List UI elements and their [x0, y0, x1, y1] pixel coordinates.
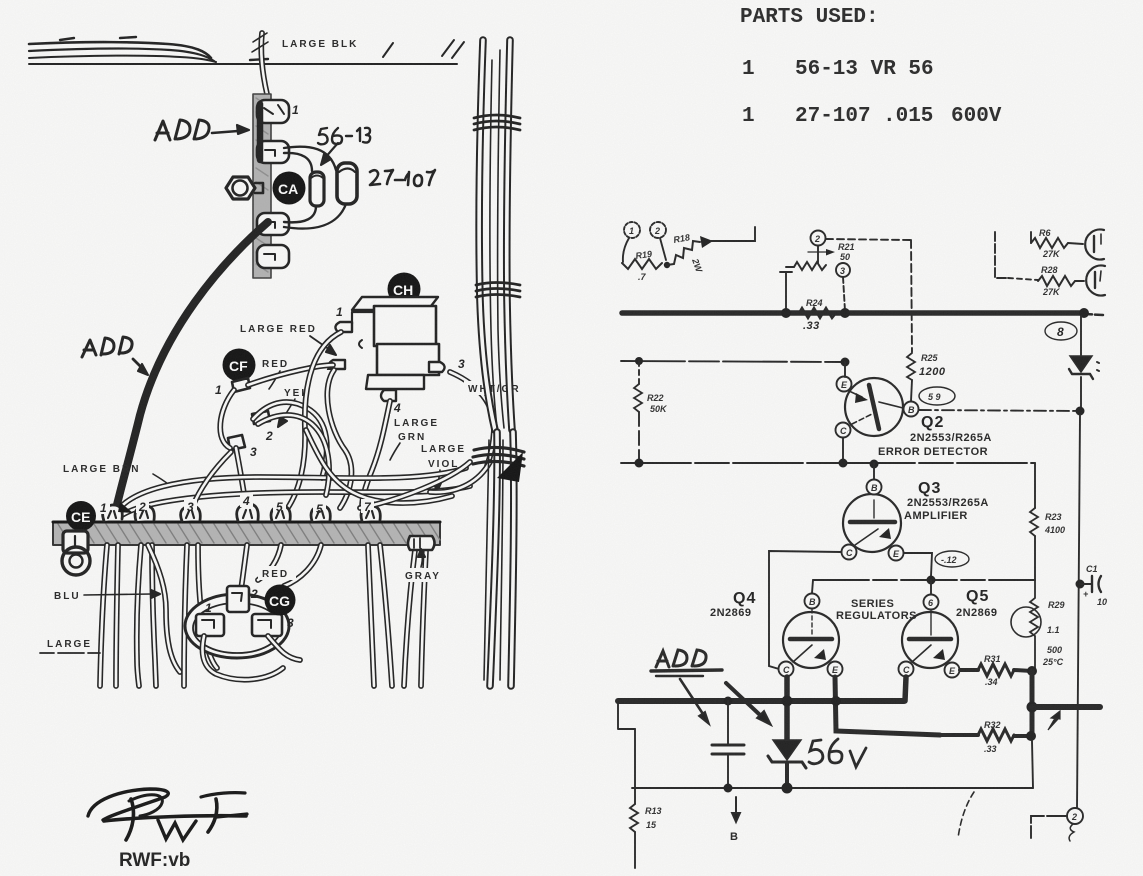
wires below strip t1 [100, 545, 107, 686]
label RED (socket) [258, 566, 296, 580]
pointer LARGE RED [310, 336, 336, 355]
VR tube 56-13 body [310, 172, 324, 206]
wire midfield crossing [306, 430, 452, 503]
hand arrow at bus [1048, 711, 1060, 730]
lug 1 on strip [257, 100, 299, 123]
main thick bus left (B-) [618, 698, 904, 704]
thermistor R29 [1011, 580, 1065, 668]
bus dash tail [1084, 314, 1103, 315]
lug 2 on strip [257, 141, 289, 163]
oval node -.12 [935, 551, 969, 567]
badge CA [273, 172, 306, 205]
capacitor C1 [1080, 564, 1107, 607]
signature W [158, 820, 196, 840]
wire R18 to corner stub [711, 227, 755, 241]
black arrow at terminal 1 [118, 502, 133, 513]
pin E of Q3 [889, 546, 904, 561]
pin B of Q2 [904, 402, 919, 417]
resistor R28 27K [1038, 265, 1084, 297]
added black jumper on strip [257, 104, 264, 160]
node terminal 2 (top left) [650, 222, 666, 238]
strip terminal 6 [311, 506, 330, 521]
relay terminal 3 [429, 357, 465, 372]
label WHT/GR [464, 381, 532, 395]
tick on top wire [252, 33, 268, 52]
pointer RED [269, 371, 280, 389]
wires large viol merging [360, 462, 470, 508]
socket CG outer shell [185, 594, 289, 658]
socket wires out [203, 636, 284, 680]
relay terminal 1 [335, 305, 352, 332]
junction E row right [841, 358, 850, 367]
strip terminal numbers [97, 493, 374, 516]
hand arrow ADD to wire [133, 359, 148, 375]
red wire t4 to socket [241, 545, 247, 590]
label LARGE VIOL [417, 441, 479, 470]
resistor R26 27K [1031, 228, 1083, 259]
junction bus capacitor [724, 697, 733, 706]
wire relay t2 down loop [327, 370, 351, 508]
terminal strip TB-B (horizontal) [53, 522, 440, 545]
lug prong marks [108, 510, 374, 518]
dashed hand mark bottom [958, 792, 974, 838]
zener diode CR (right) [1069, 356, 1099, 379]
thick wire right column down [1030, 671, 1035, 737]
node oval 8 [1045, 322, 1077, 340]
signature F stem [208, 799, 217, 832]
strip terminal 3 [181, 506, 201, 521]
second long wire across [122, 486, 470, 515]
resistor R18 [667, 232, 705, 275]
mounting bolt below CE [62, 531, 90, 575]
wire mid dash row [813, 579, 1035, 581]
relay terminal 2 [326, 359, 345, 373]
junction E row left [635, 357, 643, 365]
signature F top bar [201, 793, 245, 797]
pin E of Q4 [828, 662, 843, 677]
wire Q3 emitter to junction [904, 553, 932, 576]
gray wires below clamp [404, 550, 415, 686]
pin E of Q2 [837, 377, 852, 392]
wire viol into bundle [430, 462, 490, 492]
junction bottom capacitor [724, 784, 733, 793]
wire CF1 to relay t2 [248, 365, 333, 385]
wire mid row to Q5 base [930, 580, 932, 594]
signature F mid bar [217, 814, 247, 817]
pointer GRAY [418, 549, 425, 567]
tick marks on chassis edge [383, 40, 464, 58]
transistor Q2 [845, 378, 903, 436]
thick ADD wire curving down [115, 222, 268, 513]
pin C of Q5 [899, 662, 914, 677]
resistor R31 [960, 654, 1032, 687]
junction node R19/R18 [664, 262, 670, 268]
label YEL [280, 385, 318, 399]
wire R23 to mid row [1034, 536, 1036, 580]
wire loops to lug3 [284, 204, 346, 229]
label SERIES REGULATORS [836, 598, 917, 622]
resistor body R21 [786, 262, 826, 270]
wire diode to junction [1080, 377, 1082, 410]
arrowhead on R18 output [700, 236, 713, 248]
pin B of Q3 [867, 463, 882, 495]
wire R32 column to bottom [1032, 741, 1033, 788]
junction thick bus right [1027, 702, 1038, 713]
top right bracket wire [995, 232, 1038, 280]
signature flourish loop [88, 789, 168, 820]
label LARGE GRN [390, 414, 452, 443]
cable clamp gray [408, 536, 435, 550]
wire E stem [844, 362, 846, 377]
thick wire Q5 collector down [905, 677, 906, 701]
wire C stem of Q2 [842, 438, 844, 463]
zener diode VR56 added [768, 740, 806, 788]
junction mid row [927, 576, 936, 585]
transistor Q3 [843, 494, 901, 552]
mounting bolt at strip [226, 177, 263, 199]
handwritten 56 V [809, 739, 866, 767]
wire terminal2 to junction [660, 238, 666, 260]
thick wire Q4 emitter to R32 [835, 677, 940, 735]
pin C of Q4 [779, 662, 794, 677]
thick wire Q4 collector down [784, 677, 790, 740]
wires below strip t3 [184, 545, 187, 686]
pointer LARGE GRN [390, 443, 400, 460]
resistor R19 [622, 249, 662, 282]
capacitor 27-107 added [712, 701, 744, 788]
lug 4 on strip [257, 245, 289, 268]
wire CF loop left [220, 390, 234, 448]
handwritten ADD (top) [155, 120, 209, 140]
badge CG [265, 585, 296, 616]
wires t5 t6 into socket [258, 545, 281, 580]
terminal strip TB-A (vertical) [253, 94, 271, 278]
strip terminal 2 [135, 506, 154, 521]
junction C row left [635, 459, 644, 468]
node B arrow [730, 797, 740, 843]
wire mid row to Q4 base [812, 580, 813, 593]
resistor R24 on bus [799, 298, 836, 332]
resistor R32 [940, 720, 1031, 754]
junction bus right [1079, 308, 1089, 318]
wire terminal2 dashed to R25 column [826, 239, 910, 240]
transistor Q4 [783, 609, 839, 668]
hand arrow 56-13 to body [321, 143, 338, 165]
junction C row Q3 base [870, 460, 879, 469]
wire R25 to Q2 base [911, 380, 912, 401]
main cable bundle right side [479, 40, 495, 430]
tube socket 2 [1086, 266, 1105, 296]
socket lug 2 [227, 586, 258, 612]
main thick bus B+ [622, 310, 1084, 316]
resistor R25 [907, 353, 946, 380]
strip terminal 5 [271, 506, 290, 521]
junction bus/R24 right [840, 308, 850, 318]
wire relay t1 large red down [287, 332, 341, 509]
badge CH [388, 273, 421, 306]
junction right column [1076, 407, 1085, 416]
wire C row horizontal [621, 462, 1035, 464]
wire down from terminal3 to bus [843, 277, 845, 311]
pin E of Q5 [945, 663, 960, 678]
bottom return wire [632, 787, 1033, 789]
wire relay t3 wht/gr to bundle [450, 372, 494, 466]
signature crossbar [104, 816, 246, 821]
node terminal 1 (top left) [624, 222, 640, 238]
wiper arrow of R21 [808, 242, 855, 263]
oval node 5 9 [919, 387, 955, 405]
pin B of Q4 [805, 594, 820, 609]
socket lug 3 [252, 614, 294, 636]
node terminal 3 of R21 [836, 263, 850, 277]
strip terminal 7 [361, 506, 380, 521]
potentiometer R21 wiper terminal 2 [811, 231, 826, 246]
wire E row horizontal [621, 361, 845, 362]
wire R25 column upper [911, 240, 912, 352]
inner bundle strands [484, 50, 504, 680]
pointer LARGE BRN [153, 474, 168, 484]
junction bus/R24 left [781, 308, 791, 318]
junction R31/right column [1027, 666, 1037, 676]
top chassis cable bundle [29, 37, 268, 62]
signature R bowl [129, 795, 162, 816]
pin C of Q2 [836, 423, 851, 438]
junction bus Q4E crossing [831, 696, 841, 706]
handwritten 56-13 [318, 128, 370, 145]
bundle tie lower [473, 447, 524, 466]
wire t3 up to CF3 [192, 452, 231, 508]
junction C1 [1076, 580, 1085, 589]
wires below strip t2 [137, 545, 141, 686]
badge CE [66, 501, 96, 531]
junction R32 [1026, 731, 1036, 741]
junction bottom zener [782, 783, 793, 794]
pointer YEL [278, 399, 295, 427]
right column wire lower [1077, 415, 1080, 808]
relay CH body [352, 297, 439, 389]
tube socket 1 [1085, 230, 1104, 260]
wire right column upper [1034, 463, 1036, 508]
hand arrow ADD to zener [726, 683, 771, 725]
pin B 6 of Q5 [924, 595, 939, 610]
pointer LARGE VIOL [434, 470, 441, 492]
transistor Q5 [902, 609, 958, 668]
hand arrow ADD to capacitor [680, 679, 709, 724]
lug 3 on strip [257, 213, 289, 235]
handwritten 27-107 [370, 170, 435, 186]
wire relay t4 large grn down [362, 401, 390, 508]
blu wire from t2 loop [148, 545, 180, 672]
capacitor 27-107 body [337, 163, 357, 204]
strip terminal 4 [237, 504, 259, 521]
pointer BLU [84, 590, 160, 598]
wire bus down to diode [1080, 316, 1082, 355]
left stub and R13 [618, 701, 662, 868]
badge CF [223, 349, 256, 382]
relay terminal 4 [381, 390, 401, 415]
label RED [258, 356, 296, 370]
wire CF3 down to strip t4 [236, 448, 246, 508]
node terminal 2 (bottom right) [1067, 808, 1083, 824]
junction C row Q2 [839, 459, 848, 468]
CF fuse holder lugs [215, 378, 273, 459]
handwritten ADD (schematic) [651, 650, 722, 676]
resistor R22 [634, 361, 668, 463]
dash-dot wire Q2 base to right column [919, 410, 1080, 411]
signature R stem [126, 799, 133, 840]
resistor R23 4100 [1030, 508, 1065, 536]
bundle tie top [474, 115, 520, 130]
wire loops to lug2 [284, 147, 336, 171]
label GRAY [401, 568, 451, 582]
handwritten ADD (left) [82, 337, 132, 357]
wire Q3 collector loop to Q4 collector [769, 551, 841, 669]
wire stub to node 2 [1031, 816, 1067, 838]
junction bus zener [782, 696, 793, 707]
thick bus right segment [1032, 704, 1100, 710]
black arrow into bundle [497, 452, 523, 482]
label LARGE (bottom left) [40, 639, 100, 653]
wire CF2 yellow loop [253, 402, 327, 478]
bundle tie middle [476, 283, 520, 298]
wire into terminal strip top [261, 33, 267, 94]
hand arrow ADD to strip [212, 125, 249, 134]
long wire large brn across [116, 468, 466, 513]
wire terminal1 to R19 [623, 238, 629, 262]
squiggle below node 2 [1069, 824, 1074, 841]
wire R21 left leg T-bar to bus [780, 272, 792, 311]
pin C of Q3 [842, 545, 857, 560]
chassis edge line [29, 63, 457, 65]
wires below strip t7 [368, 545, 374, 686]
socket lug 1 [196, 601, 224, 636]
strip terminal 1 [103, 505, 123, 521]
wire yel second strand [258, 415, 329, 495]
